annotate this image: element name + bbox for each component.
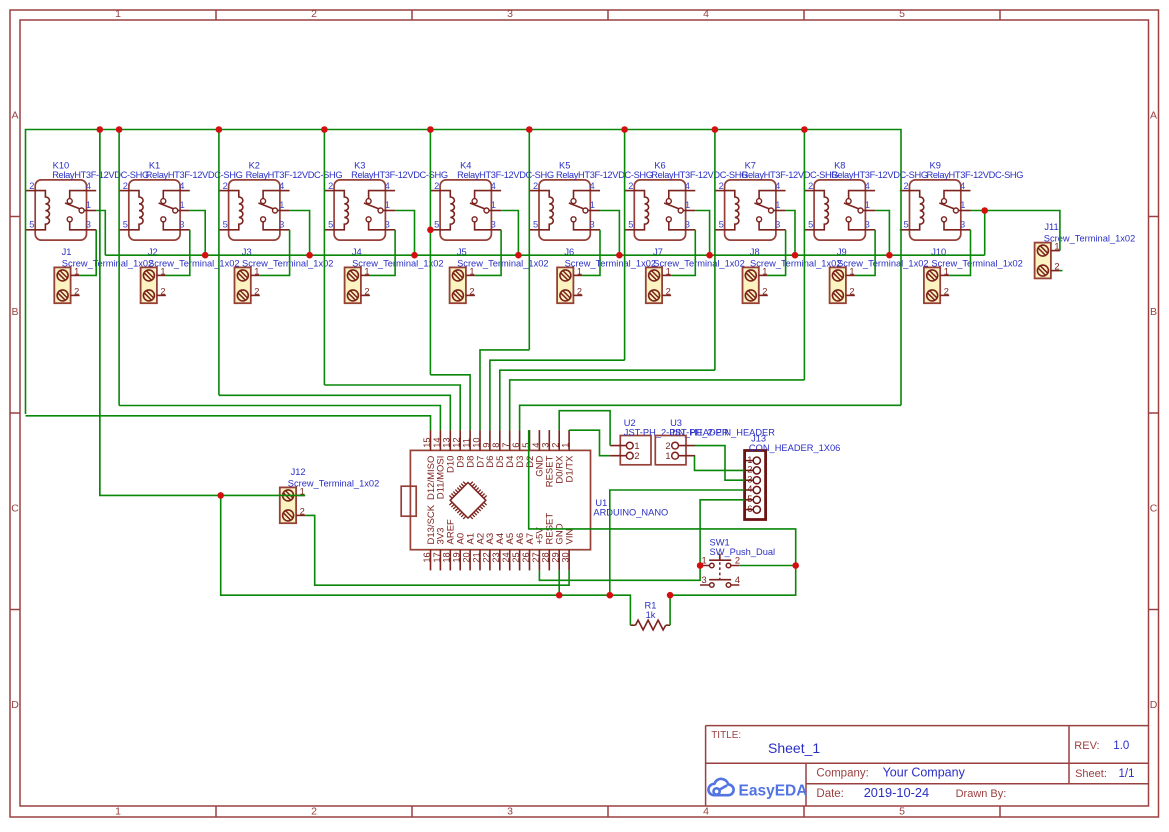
- svg-text:1.0: 1.0: [1113, 740, 1129, 752]
- connector J13 CON_HEADER_1X06: [745, 434, 841, 520]
- wire U1 D1/TX to U2 pin2: [569, 430, 610, 456]
- svg-text:2: 2: [551, 443, 561, 448]
- svg-text:EasyEDA: EasyEDA: [739, 782, 808, 799]
- svg-text:23: 23: [491, 552, 501, 562]
- svg-text:RelayHT3F-12VDC-SHG: RelayHT3F-12VDC-SHG: [246, 170, 343, 180]
- relay K8: [804, 160, 927, 240]
- junction common bus K3: [411, 252, 418, 259]
- svg-text:4: 4: [735, 575, 740, 585]
- junction SW1 pin1 junction: [697, 562, 704, 569]
- svg-text:2: 2: [628, 181, 633, 191]
- svg-text:1: 1: [86, 200, 91, 210]
- svg-text:5: 5: [899, 805, 905, 817]
- svg-text:3: 3: [279, 220, 284, 230]
- svg-text:Screw_Terminal_1x02: Screw_Terminal_1x02: [565, 258, 656, 268]
- wire +12V top bus with end drops: [26, 130, 902, 415]
- svg-text:2: 2: [665, 441, 670, 451]
- svg-text:2: 2: [719, 181, 724, 191]
- svg-text:3: 3: [491, 220, 496, 230]
- junction +12V bus x=324.4: [321, 126, 328, 133]
- svg-text:2: 2: [364, 286, 369, 296]
- relay K2: [219, 160, 342, 240]
- svg-text:1: 1: [685, 200, 690, 210]
- relay K6: [625, 160, 748, 240]
- wire +12V bus drop at x=714.9: [714, 130, 716, 371]
- wire K5 pin3 to J6 pin1: [582, 230, 600, 276]
- svg-text:RelayHT3F-12VDC-SHG: RelayHT3F-12VDC-SHG: [742, 170, 839, 180]
- junction +12V bus x=119.1: [116, 126, 123, 133]
- junction common bus K7: [792, 252, 799, 259]
- screw terminal J11: [1035, 222, 1136, 278]
- svg-text:2: 2: [747, 465, 752, 475]
- svg-text:1: 1: [590, 200, 595, 210]
- svg-text:J13: J13: [751, 434, 766, 444]
- wire +12V bus drop at x=430.4: [429, 130, 431, 375]
- svg-text:K8: K8: [834, 160, 845, 170]
- EasyEDA logo: [708, 779, 733, 795]
- svg-text:3: 3: [747, 474, 752, 484]
- svg-text:Screw_Terminal_1x02: Screw_Terminal_1x02: [837, 258, 928, 268]
- svg-text:K4: K4: [460, 160, 471, 170]
- relay K1: [119, 160, 242, 240]
- svg-text:4: 4: [703, 805, 709, 817]
- svg-text:4: 4: [385, 181, 390, 191]
- svg-text:Screw_Terminal_1x02: Screw_Terminal_1x02: [288, 478, 379, 488]
- wire +12V bus drop at x=804.4: [803, 130, 805, 380]
- svg-text:2: 2: [533, 181, 538, 191]
- svg-text:5: 5: [328, 220, 333, 230]
- junction U1 pin29 GND: [556, 592, 563, 599]
- svg-text:2: 2: [762, 286, 767, 296]
- svg-text:5: 5: [29, 220, 34, 230]
- svg-text:4: 4: [685, 181, 690, 191]
- svg-text:Your Company: Your Company: [883, 765, 966, 779]
- svg-text:2: 2: [311, 8, 317, 20]
- svg-text:2: 2: [223, 181, 228, 191]
- svg-text:21: 21: [471, 552, 481, 562]
- screw terminal J6: [557, 247, 656, 303]
- svg-text:4: 4: [531, 443, 541, 448]
- svg-text:5: 5: [434, 220, 439, 230]
- svg-text:U3: U3: [670, 418, 682, 428]
- wire K3 to U1 pin 12: [324, 385, 460, 430]
- svg-text:1/1: 1/1: [1119, 768, 1135, 780]
- screw terminal J3: [235, 247, 334, 303]
- svg-text:2: 2: [328, 181, 333, 191]
- svg-text:1: 1: [634, 441, 639, 451]
- svg-text:1k: 1k: [646, 610, 656, 620]
- svg-text:6: 6: [511, 443, 521, 448]
- wire K10 pin3 to J1 pin1: [80, 230, 97, 276]
- svg-text:29: 29: [551, 552, 561, 562]
- switch SW1 SW_Push_Dual: [700, 537, 775, 587]
- wire +12V to J12 pin1: [100, 130, 305, 496]
- svg-text:U2: U2: [624, 418, 636, 428]
- svg-text:Company:: Company:: [816, 767, 868, 779]
- svg-text:R1: R1: [645, 601, 657, 611]
- svg-text:20: 20: [462, 552, 472, 562]
- svg-text:28: 28: [541, 552, 551, 562]
- svg-text:5: 5: [747, 494, 752, 504]
- svg-text:2: 2: [1054, 262, 1059, 272]
- wire U3 pin2 to J13 pin3: [695, 446, 745, 481]
- svg-text:1: 1: [385, 200, 390, 210]
- svg-text:K3: K3: [354, 160, 365, 170]
- wire relay common bus: [105, 254, 984, 256]
- svg-text:4: 4: [747, 484, 752, 494]
- wire K4 pin3 to J5 pin1: [475, 230, 501, 276]
- svg-text:4: 4: [960, 181, 965, 191]
- svg-text:2: 2: [849, 286, 854, 296]
- svg-text:4: 4: [279, 181, 284, 191]
- junction +12V bus x=99.8: [97, 126, 104, 133]
- svg-text:Screw_Terminal_1x02: Screw_Terminal_1x02: [242, 258, 333, 268]
- svg-text:4: 4: [86, 181, 91, 191]
- svg-text:C: C: [1150, 503, 1158, 515]
- svg-text:1: 1: [491, 200, 496, 210]
- svg-text:RelayHT3F-12VDC-SHG: RelayHT3F-12VDC-SHG: [927, 170, 1024, 180]
- wire K1 to U1 pin 14: [119, 406, 440, 431]
- svg-text:2: 2: [469, 286, 474, 296]
- junction +12V bus x=804.4: [801, 126, 808, 133]
- svg-text:13: 13: [442, 437, 452, 447]
- wire K6 pin3 to J7 pin1: [671, 230, 695, 276]
- svg-text:4: 4: [865, 181, 870, 191]
- svg-text:Screw_Terminal_1x02: Screw_Terminal_1x02: [931, 258, 1022, 268]
- svg-text:A: A: [1150, 110, 1157, 122]
- svg-text:4: 4: [179, 181, 184, 191]
- svg-text:5: 5: [899, 8, 905, 20]
- svg-text:CON_HEADER_1X06: CON_HEADER_1X06: [749, 443, 840, 453]
- svg-text:19: 19: [452, 552, 462, 562]
- svg-text:B: B: [11, 306, 18, 318]
- svg-text:2: 2: [634, 451, 639, 461]
- junction K4 pin5 tap: [427, 227, 434, 234]
- screw terminal J10: [924, 247, 1023, 303]
- relay K7: [715, 160, 838, 240]
- junction +12V bus x=218.9: [216, 126, 223, 133]
- connector U3 JST-PH_2-PIN_HEADER: [655, 418, 775, 465]
- svg-text:SW_Push_Dual: SW_Push_Dual: [710, 547, 776, 557]
- svg-text:2: 2: [808, 181, 813, 191]
- svg-text:D: D: [11, 699, 19, 711]
- svg-text:K2: K2: [249, 160, 260, 170]
- svg-text:Sheet:: Sheet:: [1075, 768, 1107, 780]
- svg-text:3: 3: [865, 220, 870, 230]
- relay K4: [430, 160, 553, 240]
- svg-text:K9: K9: [930, 160, 941, 170]
- svg-text:25: 25: [511, 552, 521, 562]
- wire K9 pin3 to J10 pin1: [949, 230, 970, 276]
- wire K7 to U1 pin 8: [500, 370, 715, 430]
- title block: [706, 726, 1149, 806]
- wire K2 pin3 to J3 pin1: [260, 230, 290, 276]
- wire K2 to U1 pin 13: [219, 395, 450, 430]
- svg-text:2: 2: [944, 286, 949, 296]
- svg-text:2: 2: [904, 181, 909, 191]
- wire K10 to U1 pin 15: [26, 416, 431, 430]
- svg-text:REV:: REV:: [1074, 740, 1099, 752]
- resistor R1 1k: [630, 601, 670, 630]
- junction common bus K5: [616, 252, 623, 259]
- wire K8 to U1 pin 7: [510, 380, 805, 430]
- wire K1 pin1 to common bus: [190, 211, 205, 256]
- wire J12 pin2 to U1 VIN: [305, 515, 569, 585]
- svg-text:2: 2: [577, 286, 582, 296]
- svg-text:1: 1: [180, 200, 185, 210]
- svg-text:Screw_Terminal_1x02: Screw_Terminal_1x02: [62, 258, 153, 268]
- svg-text:J11: J11: [1044, 222, 1058, 232]
- svg-text:5: 5: [223, 220, 228, 230]
- svg-text:J1: J1: [62, 247, 72, 257]
- screw terminal J7: [646, 247, 745, 303]
- junction common bus K8: [886, 252, 893, 259]
- junction +12V bus x=624.6: [621, 126, 628, 133]
- svg-text:Screw_Terminal_1x02: Screw_Terminal_1x02: [1044, 234, 1135, 244]
- wire K7 pin3 to J8 pin1: [768, 230, 786, 276]
- svg-text:1: 1: [775, 200, 780, 210]
- svg-text:2: 2: [434, 181, 439, 191]
- junction J13 pin4 tap: [607, 592, 614, 599]
- junction SW1 pin2 junction: [792, 562, 799, 569]
- svg-text:4: 4: [703, 8, 709, 20]
- svg-text:J12: J12: [291, 467, 306, 477]
- mcu U1 ARDUINO_NANO: [401, 430, 668, 570]
- svg-text:2: 2: [666, 286, 671, 296]
- svg-text:A: A: [11, 110, 18, 122]
- svg-text:2: 2: [74, 286, 79, 296]
- svg-text:4: 4: [491, 181, 496, 191]
- svg-text:22: 22: [481, 552, 491, 562]
- svg-text:5: 5: [719, 220, 724, 230]
- svg-text:1: 1: [865, 200, 870, 210]
- svg-text:5: 5: [628, 220, 633, 230]
- relay K9: [900, 160, 1023, 240]
- wire +12V bus drop at x=529.3: [528, 130, 530, 350]
- svg-text:VIN: VIN: [564, 529, 575, 545]
- svg-text:2: 2: [311, 805, 317, 817]
- svg-text:Sheet_1: Sheet_1: [768, 740, 820, 756]
- svg-text:3: 3: [507, 8, 513, 20]
- wire K1 pin3 to J2 pin1: [166, 230, 190, 276]
- svg-text:18: 18: [442, 552, 452, 562]
- svg-text:Screw_Terminal_1x02: Screw_Terminal_1x02: [750, 258, 841, 268]
- wire +12V bus drop at x=99.8: [99, 130, 101, 496]
- wire K9 to U1 pin 6: [520, 405, 901, 430]
- junction R1 right junction: [667, 592, 674, 599]
- svg-text:1: 1: [115, 8, 121, 20]
- screw terminal J8: [743, 247, 842, 303]
- svg-text:24: 24: [501, 552, 511, 562]
- wire K6 pin1 to common bus: [695, 211, 709, 256]
- svg-text:26: 26: [521, 552, 531, 562]
- svg-text:D1/TX: D1/TX: [564, 455, 575, 483]
- svg-text:K10: K10: [53, 160, 70, 170]
- svg-text:Screw_Terminal_1x02: Screw_Terminal_1x02: [653, 258, 744, 268]
- svg-text:14: 14: [432, 437, 442, 447]
- screw terminal J5: [450, 247, 549, 303]
- svg-text:K6: K6: [654, 160, 665, 170]
- relay K3: [324, 160, 447, 240]
- svg-text:8: 8: [491, 443, 501, 448]
- connector U2 JST-PH_2-PIN_HEADER: [610, 418, 729, 465]
- wire R1 right leg / rail to U1 D2: [529, 430, 796, 625]
- svg-text:RelayHT3F-12VDC-SHG: RelayHT3F-12VDC-SHG: [146, 170, 243, 180]
- wire K8 pin1 to common bus: [875, 211, 889, 256]
- svg-text:2: 2: [735, 556, 740, 566]
- svg-text:C: C: [11, 503, 19, 515]
- svg-text:K7: K7: [745, 160, 756, 170]
- wire +12V bus drop at x=324.4: [323, 130, 325, 386]
- svg-text:9: 9: [481, 443, 491, 448]
- svg-text:RelayHT3F-12VDC-SHG: RelayHT3F-12VDC-SHG: [351, 170, 448, 180]
- wire +12V bus drop at x=624.6: [624, 130, 626, 361]
- junction K9 pin1 tap: [981, 207, 988, 214]
- svg-text:1: 1: [279, 200, 284, 210]
- wire K8 pin3 to J9 pin1: [855, 230, 875, 276]
- svg-text:RelayHT3F-12VDC-SHG: RelayHT3F-12VDC-SHG: [651, 170, 748, 180]
- junction +12V bus x=529.3: [526, 126, 533, 133]
- wire J13 pin4 to GND rail: [610, 490, 745, 595]
- svg-text:1: 1: [561, 443, 571, 448]
- svg-text:5: 5: [808, 220, 813, 230]
- relay K10: [26, 160, 149, 240]
- svg-text:ARDUINO_NANO: ARDUINO_NANO: [593, 508, 668, 518]
- wire K9 pin1 to J11 pin1: [971, 211, 1060, 251]
- svg-text:2: 2: [160, 286, 165, 296]
- wire K5 to U1 pin 10: [480, 350, 529, 430]
- svg-text:15: 15: [422, 437, 432, 447]
- svg-text:27: 27: [531, 552, 541, 562]
- svg-text:3: 3: [775, 220, 780, 230]
- wire U1 D0/RX to U2 pin1: [559, 411, 610, 446]
- svg-text:2: 2: [123, 181, 128, 191]
- junction +12V bus x=714.9: [712, 126, 719, 133]
- screw terminal J1: [54, 247, 153, 303]
- screw terminal J2: [141, 247, 240, 303]
- svg-text:17: 17: [432, 552, 442, 562]
- screw terminal J4: [345, 247, 444, 303]
- wire K6 to U1 pin 9: [490, 360, 625, 430]
- junction common bus K1: [202, 252, 209, 259]
- screw terminal J12: [280, 467, 379, 523]
- wire K3 pin1 to common bus: [395, 211, 414, 256]
- junction common bus K6: [706, 252, 713, 259]
- svg-text:3: 3: [541, 443, 551, 448]
- junction common bus K2: [306, 252, 313, 259]
- wire K4 pin1 to common bus: [501, 211, 518, 256]
- junction common bus K4: [515, 252, 522, 259]
- svg-text:Screw_Terminal_1x02: Screw_Terminal_1x02: [457, 258, 548, 268]
- junction +12V bus x=430.4: [427, 126, 434, 133]
- relay K5: [529, 160, 652, 240]
- svg-text:12: 12: [452, 437, 462, 447]
- svg-text:3: 3: [702, 575, 707, 585]
- svg-text:3: 3: [590, 220, 595, 230]
- svg-text:6: 6: [747, 504, 752, 514]
- svg-text:B: B: [1150, 306, 1157, 318]
- svg-text:3: 3: [385, 220, 390, 230]
- wire K2 pin1 to common bus: [290, 211, 310, 256]
- svg-text:4: 4: [775, 181, 780, 191]
- svg-text:3: 3: [960, 220, 965, 230]
- svg-text:Screw_Terminal_1x02: Screw_Terminal_1x02: [148, 258, 239, 268]
- wire U1 +5V to SW1 pin1 and J13 pin5: [539, 500, 744, 581]
- svg-text:K1: K1: [149, 160, 160, 170]
- svg-text:2019-10-24: 2019-10-24: [864, 785, 929, 800]
- wire J11 pin2 stub: [1060, 270, 1063, 272]
- wire K10 pin1 to common bus: [96, 211, 105, 256]
- svg-text:16: 16: [422, 552, 432, 562]
- svg-text:5: 5: [904, 220, 909, 230]
- svg-text:SW1: SW1: [710, 537, 730, 547]
- svg-text:2: 2: [254, 286, 259, 296]
- wire K7 pin1 to common bus: [786, 211, 795, 256]
- svg-text:K5: K5: [559, 160, 570, 170]
- wire K5 pin1 to common bus: [600, 211, 619, 256]
- svg-text:RelayHT3F-12VDC-SHG: RelayHT3F-12VDC-SHG: [457, 170, 554, 180]
- wire SW1 pin2 to GND net: [739, 565, 795, 567]
- wire +12V bus drop at x=218.9: [218, 130, 220, 396]
- wire K3 pin3 to J4 pin1: [370, 230, 395, 276]
- svg-text:30: 30: [561, 552, 571, 562]
- wire K4 to U1 pin 11: [430, 375, 470, 430]
- svg-text:2: 2: [29, 181, 34, 191]
- svg-text:Drawn By:: Drawn By:: [956, 788, 1007, 800]
- svg-text:Date:: Date:: [816, 788, 844, 800]
- svg-text:RelayHT3F-12VDC-SHG: RelayHT3F-12VDC-SHG: [831, 170, 928, 180]
- svg-text:2: 2: [300, 506, 305, 516]
- wire U1 pin29 GND drop: [558, 570, 560, 595]
- svg-text:1: 1: [665, 451, 670, 461]
- svg-text:11: 11: [462, 438, 472, 448]
- screw terminal J9: [830, 247, 929, 303]
- svg-text:D: D: [1150, 699, 1158, 711]
- wire +12V bus drop at x=119.1: [118, 130, 120, 406]
- svg-text:3: 3: [507, 805, 513, 817]
- svg-text:4: 4: [590, 181, 595, 191]
- svg-text:TITLE:: TITLE:: [711, 730, 741, 741]
- svg-text:1: 1: [115, 805, 121, 817]
- svg-text:7: 7: [501, 443, 511, 448]
- svg-text:5: 5: [533, 220, 538, 230]
- wire common bus to K9 line: [984, 211, 986, 256]
- wire U3 pin1 to J13 pin2: [695, 456, 745, 471]
- svg-text:1: 1: [747, 455, 752, 465]
- wire GND rail left + R1 left leg: [221, 495, 631, 625]
- svg-text:3: 3: [179, 220, 184, 230]
- svg-text:RelayHT3F-12VDC-SHG: RelayHT3F-12VDC-SHG: [556, 170, 653, 180]
- junction J12 pin1 branch: [217, 492, 224, 499]
- svg-text:3: 3: [86, 220, 91, 230]
- svg-text:5: 5: [123, 220, 128, 230]
- svg-text:10: 10: [471, 437, 481, 447]
- svg-text:1: 1: [960, 200, 965, 210]
- svg-text:3: 3: [685, 220, 690, 230]
